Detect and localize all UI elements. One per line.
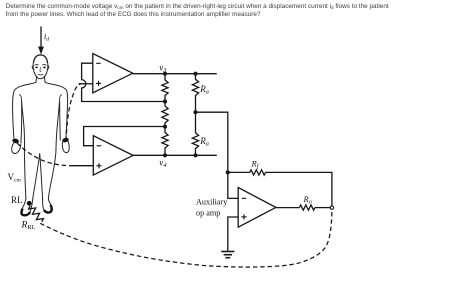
svg-text:id: id <box>44 32 49 42</box>
svg-text:Ra: Ra <box>199 84 209 95</box>
svg-text:v4: v4 <box>159 157 167 169</box>
svg-text:v3: v3 <box>159 62 167 74</box>
svg-text:Auxiliary: Auxiliary <box>196 198 228 207</box>
svg-text:Ra: Ra <box>199 136 209 147</box>
svg-text:Ro: Ro <box>303 194 312 205</box>
svg-text:RRL: RRL <box>21 221 36 231</box>
svg-text:op amp: op amp <box>196 209 220 218</box>
svg-text:Rf: Rf <box>251 159 260 170</box>
svg-text:RL: RL <box>11 195 23 205</box>
svg-text:Vcm: Vcm <box>8 172 22 184</box>
